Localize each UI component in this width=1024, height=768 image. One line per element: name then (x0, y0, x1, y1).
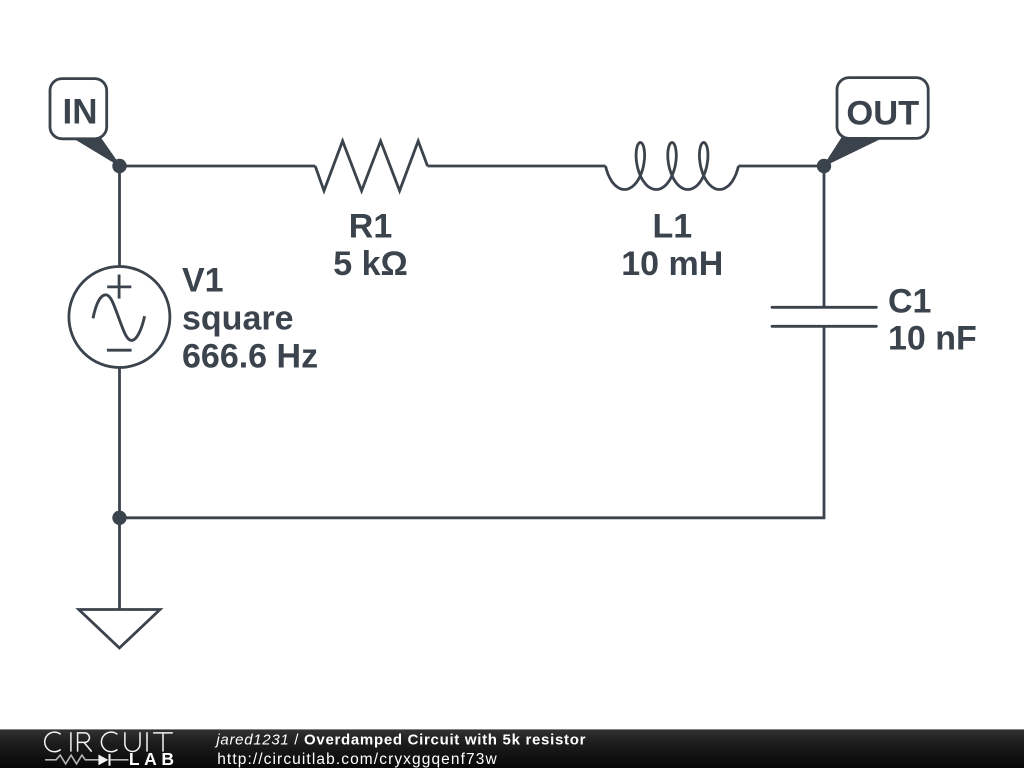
wire top right (738, 165, 824, 168)
node OUT (817, 159, 831, 173)
inductor L1 (606, 143, 739, 190)
wire right vertical upper (823, 166, 826, 307)
wire left vertical upper (118, 166, 121, 267)
logo letter C1 (45, 732, 61, 752)
footer logo wire + resistor zigzag (45, 755, 128, 764)
capacitor C1 top plate (772, 306, 876, 309)
node IN (112, 159, 126, 173)
V1 sine wave (93, 295, 145, 341)
footer logo CIRCUIT (thin custom letters) (45, 732, 173, 752)
footer bar (0, 729, 1024, 768)
logo letter U (125, 732, 140, 751)
logo letter I2 (146, 732, 148, 751)
svg-text:R1: R1 (349, 207, 392, 245)
wire ground stub (118, 518, 121, 610)
svg-text:10 mH: 10 mH (621, 245, 723, 283)
svg-text:LAB: LAB (129, 749, 179, 768)
V1 plus sign (107, 275, 131, 299)
svg-text:OUT: OUT (846, 95, 919, 133)
logo letter R (78, 733, 92, 752)
wire top middle (428, 165, 606, 168)
svg-text:10 nF: 10 nF (888, 320, 977, 358)
svg-text:5 kΩ: 5 kΩ (333, 245, 408, 283)
svg-text:L1: L1 (652, 207, 692, 245)
voltage source V1 circle (69, 267, 170, 368)
OUT flag wedge (824, 138, 879, 166)
wire top left (120, 165, 316, 168)
svg-text:http://circuitlab.com/cryxggqe: http://circuitlab.com/cryxggqenf73w (217, 751, 498, 768)
wire bottom (120, 326, 825, 518)
OUT flag box (837, 78, 928, 139)
svg-text:666.6 Hz: 666.6 Hz (182, 337, 318, 375)
ground symbol (79, 610, 160, 649)
svg-text:IN: IN (63, 93, 98, 132)
footer logo diode cathode bar (109, 754, 111, 766)
svg-text:V1: V1 (182, 261, 224, 299)
svg-text:jared1231 / Overdamped Circuit: jared1231 / Overdamped Circuit with 5k r… (214, 732, 586, 749)
logo letter C2 (101, 732, 117, 752)
resistor R1 (315, 141, 427, 191)
svg-text:C1: C1 (888, 283, 931, 321)
IN flag wedge (75, 138, 120, 166)
node bottom left (112, 511, 126, 525)
IN flag box (50, 79, 107, 139)
svg-text:square: square (182, 299, 294, 337)
logo letter T (153, 733, 173, 752)
wire left vertical lower (118, 368, 121, 518)
footer logo diode (98, 755, 108, 766)
logo letter I1 (70, 732, 72, 751)
V1 minus sign (107, 349, 132, 352)
capacitor C1 bottom plate (772, 325, 876, 328)
